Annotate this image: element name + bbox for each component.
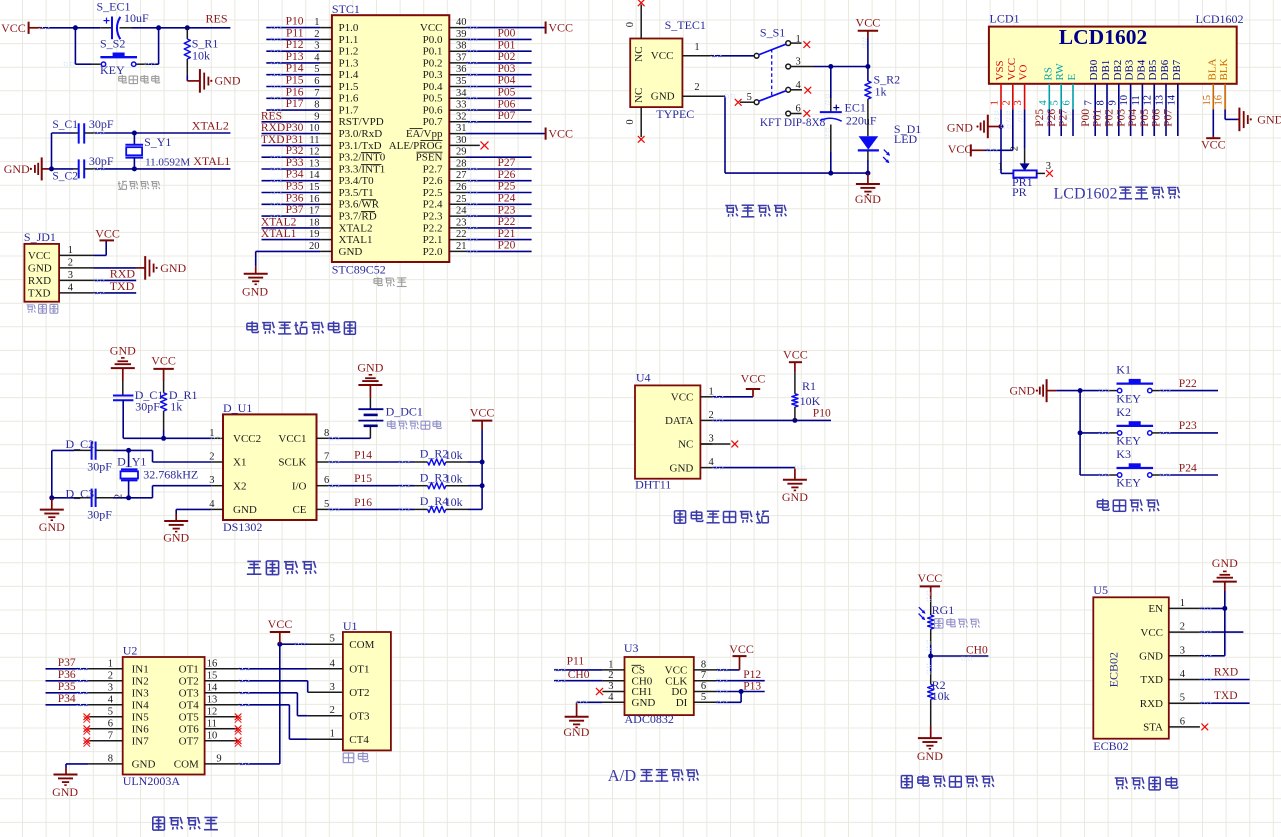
svg-text:STA: STA [1143,722,1163,734]
svg-text:P07: P07 [1163,109,1175,127]
svg-text:20: 20 [309,241,320,252]
svg-text:D_U1: D_U1 [223,401,252,415]
svg-text:DB6: DB6 [1159,59,1171,80]
svg-text:P10: P10 [813,407,831,419]
svg-text:COM: COM [174,759,199,771]
svg-text:3: 3 [314,41,319,52]
svg-text:OT1: OT1 [349,664,369,676]
svg-text:OT7: OT7 [179,736,200,748]
svg-text:1: 1 [330,729,335,740]
svg-text:VSS: VSS [994,60,1006,80]
svg-text:P27: P27 [498,157,516,169]
svg-text:S_Y1: S_Y1 [144,135,171,149]
svg-text:10k: 10k [445,495,463,509]
svg-text:GND: GND [339,246,363,258]
svg-text:10K: 10K [800,394,821,408]
svg-text:IN4: IN4 [132,700,150,712]
svg-text:S_JD1: S_JD1 [24,230,56,244]
svg-text:34: 34 [456,88,467,99]
svg-text:2: 2 [209,452,214,463]
svg-text:9: 9 [1107,100,1118,105]
svg-text:5: 5 [1180,693,1185,704]
svg-text:VCC: VCC [548,21,573,35]
svg-text:BLK: BLK [1218,58,1230,80]
svg-text:VCC: VCC [651,50,674,62]
svg-text:39: 39 [456,29,467,40]
svg-text:U4: U4 [636,371,651,385]
svg-text:R1: R1 [802,379,816,393]
svg-text:OT3: OT3 [179,688,200,700]
svg-text:3: 3 [1013,100,1024,105]
svg-text:P20: P20 [498,240,516,252]
svg-text:TXD: TXD [1140,674,1163,686]
svg-text:XTAL2: XTAL2 [261,216,297,228]
svg-text:8: 8 [324,428,329,439]
svg-text:GND: GND [110,343,136,357]
svg-text:P16: P16 [354,497,372,509]
svg-text:P2.2: P2.2 [423,222,443,234]
svg-text:GND: GND [1010,384,1036,398]
svg-text:4: 4 [68,282,74,293]
svg-text:S_S2: S_S2 [100,37,125,51]
svg-text:P2.0: P2.0 [423,246,443,258]
svg-text:PR: PR [1012,185,1027,199]
svg-text:U5: U5 [1093,583,1108,597]
svg-text:5: 5 [1050,100,1061,105]
svg-text:GND: GND [215,74,241,88]
svg-text:P35: P35 [286,181,304,193]
svg-text:KEY: KEY [100,63,125,77]
svg-text:DB3: DB3 [1124,59,1136,80]
svg-text:VCC: VCC [268,617,293,631]
svg-text:P2.5: P2.5 [423,187,443,199]
svg-text:10: 10 [309,123,320,134]
svg-text:NC: NC [633,88,645,103]
svg-text:GND: GND [4,162,30,176]
svg-text:XTAL1: XTAL1 [339,234,373,246]
svg-text:DB4: DB4 [1135,59,1147,80]
svg-text:VCC: VCC [1006,58,1018,81]
svg-text:5: 5 [314,64,319,75]
svg-text:RXD: RXD [28,275,51,287]
svg-text:I/O: I/O [292,480,307,492]
svg-text:33: 33 [456,100,467,111]
svg-text:22: 22 [456,229,467,240]
svg-text:P2.4: P2.4 [423,199,443,211]
svg-text:35: 35 [456,76,467,87]
svg-text:X2: X2 [233,480,246,492]
svg-text:RST/VPD: RST/VPD [339,116,384,128]
svg-text:12: 12 [1143,95,1154,106]
svg-text:6: 6 [1062,100,1073,105]
svg-text:7: 7 [314,88,319,99]
svg-text:28: 28 [456,159,467,170]
svg-text:P24: P24 [1179,462,1197,474]
svg-text:RXD: RXD [1214,667,1238,679]
svg-text:1: 1 [990,100,1001,105]
svg-text:5: 5 [330,634,335,645]
svg-text:19: 19 [309,229,320,240]
svg-text:2: 2 [314,29,319,40]
svg-text:ADC0832: ADC0832 [625,712,674,726]
svg-text:GND: GND [357,360,383,374]
svg-text:U1: U1 [343,619,358,633]
svg-text:P02: P02 [498,51,516,63]
svg-text:10k: 10k [932,689,950,703]
svg-text:4: 4 [209,499,215,510]
svg-text:ECB02: ECB02 [1093,739,1128,753]
svg-text:XTAL2: XTAL2 [339,222,373,234]
svg-text:12: 12 [207,706,218,717]
svg-text:16: 16 [309,194,320,205]
svg-text:P10: P10 [286,16,304,28]
svg-text:30: 30 [456,135,467,146]
svg-text:RW: RW [1054,63,1066,81]
svg-text:XTAL1: XTAL1 [261,228,297,240]
svg-text:4: 4 [108,694,114,705]
svg-text:7: 7 [324,452,329,463]
svg-text:ULN2003A: ULN2003A [123,774,181,788]
svg-text:OT6: OT6 [179,724,200,736]
svg-text:8: 8 [701,659,706,670]
svg-text:5: 5 [324,499,329,510]
svg-text:11: 11 [207,718,217,729]
svg-text:S_C2: S_C2 [52,170,78,182]
svg-text:2: 2 [330,705,335,716]
svg-text:4: 4 [608,692,614,703]
svg-text:DB5: DB5 [1147,59,1159,80]
svg-text:15: 15 [309,182,320,193]
svg-text:12: 12 [309,147,320,158]
svg-text:1k: 1k [875,84,887,98]
svg-text:P06: P06 [498,98,516,110]
svg-text:TXD: TXD [110,279,135,293]
svg-text:9: 9 [216,753,221,764]
svg-text:LCD1602: LCD1602 [1054,185,1118,202]
svg-text:3: 3 [209,475,214,486]
svg-text:E: E [1066,74,1078,81]
svg-text:P1.3: P1.3 [339,57,359,69]
svg-text:D_Y1: D_Y1 [117,455,146,469]
svg-text:13: 13 [1155,95,1166,106]
svg-text:VCC: VCC [783,348,808,362]
svg-text:VCC2: VCC2 [233,433,261,445]
svg-text:P0.6: P0.6 [423,105,443,117]
svg-text:LED: LED [894,132,918,146]
svg-text:16: 16 [207,658,218,669]
svg-text:P37: P37 [58,657,76,669]
svg-text:3: 3 [330,682,335,693]
svg-text:2: 2 [108,670,113,681]
svg-text:P34: P34 [286,169,304,181]
svg-text:ALE/PROG: ALE/PROG [389,140,443,152]
svg-text:8: 8 [108,753,113,764]
svg-text:P35: P35 [58,681,76,693]
svg-text:DS1302: DS1302 [223,520,262,534]
svg-text:DATA: DATA [665,415,694,427]
svg-text:P3.7/RD: P3.7/RD [339,211,377,223]
svg-text:P23: P23 [1179,420,1197,432]
svg-text:P11: P11 [567,655,585,667]
svg-text:IN2: IN2 [132,676,149,688]
svg-text:K1: K1 [1116,363,1131,377]
svg-text:P25: P25 [498,181,516,193]
svg-text:220uF: 220uF [846,113,877,127]
svg-text:10: 10 [207,730,218,741]
svg-text:TXD: TXD [261,134,285,146]
svg-text:VO: VO [1018,65,1030,81]
svg-text:30pF: 30pF [87,459,112,473]
svg-text:2: 2 [608,670,613,681]
svg-text:OT5: OT5 [179,712,200,724]
svg-text:COM: COM [349,639,374,651]
svg-text:5: 5 [701,692,706,703]
svg-text:VCC: VCC [28,250,51,262]
svg-text:40: 40 [456,17,467,28]
svg-text:XTAL1: XTAL1 [193,154,230,168]
svg-text:P1.2: P1.2 [339,46,359,58]
svg-text:P22: P22 [1179,378,1197,390]
svg-text:TYPEC: TYPEC [656,107,694,121]
svg-text:30pF: 30pF [89,117,114,131]
svg-text:P06: P06 [1151,109,1163,127]
svg-text:VCC: VCC [470,405,495,419]
svg-text:VCC: VCC [1201,137,1226,151]
svg-text:P03: P03 [1115,109,1127,127]
svg-text:11: 11 [309,135,319,146]
svg-text:P23: P23 [498,204,516,216]
svg-text:36: 36 [456,64,467,75]
svg-text:29: 29 [456,147,467,158]
svg-text:VCC: VCC [420,22,443,34]
svg-text:P01: P01 [1092,109,1104,127]
svg-text:P30: P30 [286,122,304,134]
svg-text:SCLK: SCLK [278,457,306,469]
svg-text:P05: P05 [1139,109,1151,127]
svg-text:LCD1602: LCD1602 [1196,12,1244,26]
svg-text:S_S1: S_S1 [760,26,785,40]
svg-text:13: 13 [207,694,218,705]
svg-text:P34: P34 [58,693,76,705]
svg-text:P3.5/T1: P3.5/T1 [339,187,374,199]
svg-text:14: 14 [207,682,218,693]
svg-text:P2.3: P2.3 [423,211,443,223]
svg-text:IN6: IN6 [132,724,150,736]
svg-text:GND: GND [52,785,78,799]
svg-text:RG1: RG1 [932,603,955,617]
svg-text:P15: P15 [286,75,304,87]
svg-text:P21: P21 [498,228,516,240]
svg-text:21: 21 [456,241,467,252]
svg-text:VCC: VCC [948,142,973,156]
svg-text:18: 18 [309,217,320,228]
svg-text:2: 2 [694,82,699,93]
svg-text:4: 4 [1038,100,1049,106]
svg-text:K3: K3 [1116,447,1131,461]
svg-text:P36: P36 [286,192,304,204]
svg-text:VCC: VCC [548,127,573,141]
svg-text:P0.2: P0.2 [423,57,443,69]
svg-text:U3: U3 [624,641,639,655]
svg-text:P3.6/WR: P3.6/WR [339,199,380,211]
svg-text:GND: GND [782,490,808,504]
svg-text:14: 14 [309,170,320,181]
svg-text:P3.3/INT1: P3.3/INT1 [339,163,386,175]
svg-text:2: 2 [68,257,73,268]
svg-text:XTAL2: XTAL2 [192,118,229,132]
svg-text:OT4: OT4 [179,700,200,712]
svg-text:2: 2 [1180,622,1185,633]
svg-text:P16: P16 [286,86,304,98]
svg-text:P02: P02 [1104,109,1116,127]
svg-text:3: 3 [108,682,113,693]
svg-text:5: 5 [108,706,113,717]
svg-text:P11: P11 [286,27,304,39]
svg-text:P1.5: P1.5 [339,81,359,93]
svg-text:P26: P26 [498,169,516,181]
svg-text:P31: P31 [286,134,304,146]
svg-text:BLA: BLA [1206,58,1218,80]
svg-text:P04: P04 [1127,109,1139,127]
svg-text:P1.6: P1.6 [339,93,359,105]
svg-text:KEY: KEY [1116,476,1141,490]
svg-text:GND: GND [233,504,257,516]
svg-text:2: 2 [1010,146,1021,151]
svg-text:30pF: 30pF [87,508,112,522]
svg-text:1: 1 [108,658,113,669]
svg-text:DHT11: DHT11 [635,477,671,491]
svg-text:P0.3: P0.3 [423,69,443,81]
svg-text:IN7: IN7 [132,736,150,748]
svg-text:VCC: VCC [856,16,881,30]
svg-text:GND: GND [39,520,65,534]
svg-text:P13: P13 [743,681,761,693]
svg-text:2: 2 [114,494,125,499]
svg-text:9: 9 [314,111,319,122]
svg-text:30pF: 30pF [135,399,160,413]
svg-text:GND: GND [160,261,186,275]
svg-text:P33: P33 [286,157,304,169]
svg-text:GND: GND [1139,651,1163,663]
svg-text:GND: GND [917,749,943,763]
svg-text:10k: 10k [445,448,463,462]
svg-text:GND: GND [947,120,973,134]
svg-text:VCC: VCC [151,354,176,368]
svg-text:25: 25 [456,194,467,205]
svg-text:8: 8 [314,100,319,111]
svg-text:P0.1: P0.1 [423,46,443,58]
svg-text:TXD: TXD [28,288,51,300]
svg-text:VCC: VCC [741,371,766,385]
svg-text:P15: P15 [354,473,372,485]
svg-text:P3.0/RxD: P3.0/RxD [339,128,383,140]
svg-text:1: 1 [1180,598,1185,609]
svg-text:KEY: KEY [1116,434,1141,448]
svg-text:P1.0: P1.0 [339,22,359,34]
svg-text:P12: P12 [743,669,761,681]
svg-text:37: 37 [456,52,467,63]
svg-text:GND: GND [563,725,589,739]
svg-text:3: 3 [1046,161,1051,172]
svg-text:P13: P13 [286,51,304,63]
svg-text:P2.1: P2.1 [423,234,443,246]
svg-text:VCC: VCC [729,642,754,656]
svg-text:P1.7: P1.7 [339,105,359,117]
svg-text:6: 6 [314,76,319,87]
svg-text:S_C1: S_C1 [52,119,78,131]
svg-text:RXD: RXD [261,122,285,134]
svg-text:DB1: DB1 [1100,60,1112,81]
svg-text:4: 4 [330,658,336,669]
svg-text:7: 7 [1084,100,1095,105]
svg-text:P37: P37 [286,204,304,216]
svg-text:11.0592M: 11.0592M [145,157,190,169]
svg-text:24: 24 [456,206,467,217]
svg-text:13: 13 [309,159,320,170]
svg-text:TXD: TXD [1214,690,1238,702]
svg-text:P17: P17 [286,98,304,110]
svg-text:1k: 1k [170,399,182,413]
svg-text:RES: RES [206,11,228,25]
svg-text:7: 7 [701,670,706,681]
svg-text:KEY: KEY [1116,391,1141,405]
svg-text:23: 23 [456,217,467,228]
svg-text:10: 10 [1119,95,1130,106]
svg-text:P1.4: P1.4 [339,69,359,81]
svg-text:VCC: VCC [95,226,120,240]
svg-text:D_C3: D_C3 [66,486,95,500]
svg-text:P05: P05 [498,87,516,99]
svg-text:RS: RS [1042,67,1054,80]
svg-text:CT4: CT4 [349,734,369,746]
svg-text:26: 26 [456,182,467,193]
svg-text:RES: RES [261,111,282,123]
svg-text:6: 6 [1180,716,1185,727]
svg-text:P04: P04 [498,75,516,87]
svg-text:DB2: DB2 [1112,60,1124,81]
svg-text:P2.7: P2.7 [423,163,443,175]
svg-text:GND: GND [855,192,881,206]
svg-text:15: 15 [1202,95,1213,106]
svg-text:GND: GND [163,531,189,545]
svg-text:GND: GND [1212,556,1238,570]
svg-text:15: 15 [207,670,218,681]
svg-text:NC: NC [678,439,693,451]
svg-text:0: 0 [625,119,636,124]
svg-text:ECB02: ECB02 [1107,652,1121,687]
svg-text:GND: GND [632,697,656,709]
svg-text:1: 1 [314,17,319,28]
svg-text:VCC: VCC [918,571,943,585]
svg-text:1: 1 [694,42,699,53]
svg-text:P3.2/INT0: P3.2/INT0 [339,152,386,164]
svg-text:10k: 10k [192,49,210,63]
svg-text:IN3: IN3 [132,688,150,700]
svg-text:S_TEC1: S_TEC1 [665,18,706,32]
svg-text:PSEN: PSEN [416,152,443,164]
svg-text:3: 3 [1180,645,1185,656]
svg-text:A/D: A/D [608,766,637,785]
svg-text:VCC: VCC [1,21,26,35]
svg-text:IN5: IN5 [132,712,150,724]
svg-text:DI: DI [676,697,688,709]
svg-text:P22: P22 [498,216,516,228]
svg-text:RXD: RXD [1140,698,1163,710]
svg-text:P14: P14 [354,449,372,461]
svg-text:P0.5: P0.5 [423,93,443,105]
svg-text:EA/Vpp: EA/Vpp [406,128,443,140]
svg-text:32: 32 [456,111,467,122]
